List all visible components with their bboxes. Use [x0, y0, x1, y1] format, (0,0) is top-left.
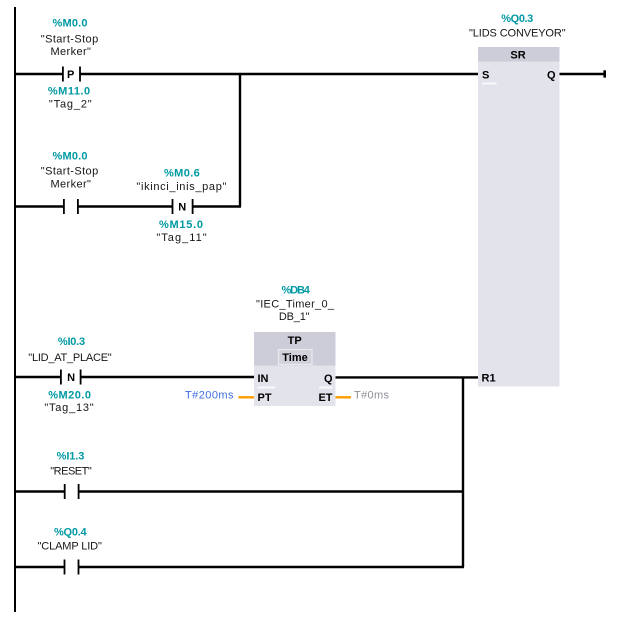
wire rung1 right to SR S input: [80, 73, 478, 75]
svg-text:Q: Q: [547, 69, 556, 81]
pin S underline: [482, 83, 497, 85]
svg-text:%M11.0: %M11.0: [48, 86, 90, 98]
contact N %M0.6: [173, 199, 193, 214]
svg-text:%M15.0: %M15.0: [159, 219, 203, 231]
power rail: [14, 7, 16, 612]
wire rung5 left: [14, 566, 65, 568]
svg-text:%Q0.4: %Q0.4: [54, 527, 88, 539]
wire rung3 left: [14, 376, 61, 378]
wire PT input (orange): [239, 396, 255, 398]
svg-text:T#200ms: T#200ms: [185, 389, 234, 401]
wire rung4 left: [14, 490, 65, 492]
svg-text:N: N: [178, 201, 186, 213]
contact NO %Q0.4: [65, 560, 79, 575]
terminal end bar: [603, 70, 606, 77]
svg-text:"LIDS CONVEYOR": "LIDS CONVEYOR": [469, 27, 566, 39]
pin Q underline: [319, 387, 333, 389]
label "IEC_Timer_0_DB_1": [256, 298, 335, 323]
wire branch vertical rung1-rung2: [239, 74, 241, 207]
wire rung2 middle: [78, 205, 173, 207]
svg-text:%DB4: %DB4: [282, 285, 311, 297]
svg-text:N: N: [67, 372, 75, 384]
svg-text:%Q0.3: %Q0.3: [501, 13, 533, 25]
svg-text:%M0.0: %M0.0: [53, 151, 88, 163]
svg-text:ET: ET: [318, 392, 332, 404]
svg-text:S: S: [482, 69, 489, 81]
svg-text:%M0.0: %M0.0: [53, 18, 88, 30]
wire rung5 right: [79, 566, 465, 568]
svg-text:IN: IN: [258, 373, 269, 385]
timer block header: [254, 332, 336, 366]
svg-text:R1: R1: [482, 373, 496, 385]
svg-text:%M20.0: %M20.0: [48, 389, 91, 401]
timer type box Time: [279, 350, 313, 365]
wire rung2 right: [193, 205, 241, 207]
contact NO %I1.3: [65, 484, 79, 499]
svg-text:%I0.3: %I0.3: [58, 336, 85, 348]
wire rung1 left: [14, 73, 63, 75]
svg-text:"LID_AT_PLACE": "LID_AT_PLACE": [28, 352, 111, 364]
svg-text:T#0ms: T#0ms: [354, 390, 390, 402]
svg-text:"Tag_11": "Tag_11": [156, 232, 206, 244]
svg-text:"Start-Stop: "Start-Stop: [41, 34, 98, 46]
wire branch vertical right: [462, 377, 464, 567]
svg-text:%I1.3: %I1.3: [57, 451, 85, 463]
svg-text:SR: SR: [510, 50, 525, 62]
wire rung2 left: [14, 205, 64, 207]
svg-text:Q: Q: [324, 373, 333, 385]
svg-text:"Tag_13": "Tag_13": [44, 402, 93, 414]
svg-text:"Tag_2": "Tag_2": [49, 99, 92, 111]
svg-text:Merker": Merker": [51, 46, 91, 58]
SR block %Q0.3 body: [478, 47, 560, 387]
svg-text:%M0.6: %M0.6: [164, 168, 200, 180]
svg-text:"CLAMP LID": "CLAMP LID": [38, 541, 102, 553]
wire timer Q to SR R1: [336, 376, 479, 378]
svg-text:TP: TP: [288, 335, 302, 347]
SR block header: [478, 47, 560, 62]
label "Start-Stop Merker" (rung2): [41, 166, 98, 191]
wire ET output (orange): [336, 396, 352, 398]
contact NO %M0.0: [64, 199, 78, 214]
svg-text:Time: Time: [282, 352, 307, 364]
svg-text:"Start-Stop: "Start-Stop: [41, 166, 98, 178]
contact P %M0.0: [63, 67, 80, 82]
svg-text:"ikinci_inis_pap": "ikinci_inis_pap": [136, 181, 226, 193]
wire SR Q output: [560, 73, 605, 75]
timer block U1 TP body: [254, 332, 336, 406]
wire rung4 right: [79, 490, 464, 492]
svg-text:"RESET": "RESET": [50, 466, 92, 478]
label "Start-Stop Merker": [41, 34, 98, 59]
svg-text:PT: PT: [258, 392, 272, 404]
wire rung3 to timer IN: [81, 376, 254, 378]
svg-text:P: P: [67, 69, 74, 81]
svg-text:DB_1": DB_1": [279, 311, 310, 323]
pin IN underline: [258, 387, 276, 389]
svg-text:"IEC_Timer_0_: "IEC_Timer_0_: [256, 298, 335, 310]
contact N %I0.3: [61, 370, 81, 385]
svg-text:Merker": Merker": [51, 178, 91, 190]
